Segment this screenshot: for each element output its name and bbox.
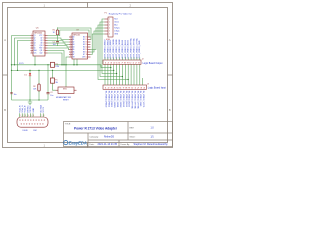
- svg-text:12: 12: [86, 52, 88, 54]
- svg-text:OUT_VIDEO_BLU1: OUT_VIDEO_BLU1: [125, 39, 127, 58]
- svg-text:15: 15: [86, 44, 88, 46]
- svg-text:HSYNC: HSYNC: [27, 105, 29, 113]
- svg-text:B: B: [4, 108, 6, 112]
- svg-text:RetherDS: RetherDS: [104, 136, 115, 139]
- svg-text:SW1: SW1: [63, 89, 67, 91]
- svg-text:Red: Red: [114, 19, 117, 21]
- svg-text:10u: 10u: [50, 95, 53, 97]
- diode D1: [24, 70, 31, 100]
- svg-text:11: 11: [43, 48, 45, 50]
- svg-text:Q8: Q8: [40, 40, 42, 42]
- svg-text:VGA_R: VGA_R: [18, 105, 21, 113]
- svg-text:12M: 12M: [55, 66, 59, 68]
- svg-text:IN_VIDEO_GRN2: IN_VIDEO_GRN2: [119, 91, 121, 108]
- svg-text:OUT_VIDEO_VSYNC: OUT_VIDEO_VSYNC: [133, 38, 135, 59]
- svg-text:74HC245: 74HC245: [73, 35, 81, 37]
- svg-text:GND: GND: [33, 107, 35, 112]
- svg-text:B7: B7: [83, 54, 85, 56]
- svg-text:14: 14: [43, 40, 45, 42]
- svg-text:OUT_VIDEO_RED2: OUT_VIDEO_RED2: [110, 39, 112, 59]
- svg-text:11: 11: [86, 54, 88, 56]
- wire U2 pin to switch SW1: [66, 57, 69, 87]
- svg-text:Q6: Q6: [34, 48, 36, 50]
- svg-text:A: A: [4, 38, 6, 42]
- svg-text:VCC5: VCC5: [43, 106, 45, 112]
- title block: [64, 122, 173, 147]
- svg-text:CLK: CLK: [34, 53, 37, 55]
- svg-text:Q7: Q7: [40, 38, 42, 40]
- wire U2 bottom pins to rail: [74, 59, 77, 65]
- svg-text:IN_VIDEO_RED2: IN_VIDEO_RED2: [110, 91, 112, 108]
- svg-text:Logic Board Output: Logic Board Output: [143, 62, 163, 65]
- wire bus between output and input headers: [105, 64, 143, 82]
- svg-text:RST: RST: [39, 48, 42, 50]
- capacitor C2: [47, 65, 54, 100]
- svg-text:10: 10: [86, 57, 88, 59]
- svg-text:B2: B2: [83, 42, 85, 44]
- ground: [28, 100, 32, 105]
- resistor R2: [33, 70, 40, 100]
- svg-text:18: 18: [86, 37, 88, 39]
- svg-text:14: 14: [86, 47, 88, 49]
- svg-text:Q10: Q10: [40, 45, 43, 47]
- svg-text:B3: B3: [83, 44, 85, 46]
- svg-text:OUT_VIDEO_GRN0: OUT_VIDEO_GRN0: [113, 39, 115, 59]
- svg-text:Blue: Blue: [114, 25, 117, 27]
- svg-text:B6: B6: [83, 52, 85, 54]
- svg-text:17: 17: [86, 39, 88, 41]
- wire bus U1 outputs to U2 inputs: [48, 38, 70, 50]
- svg-text:OUT_VIDEO_HSYNC: OUT_VIDEO_HSYNC: [131, 37, 133, 58]
- svg-text:12: 12: [43, 45, 45, 47]
- svg-text:TITLE:: TITLE:: [65, 123, 71, 125]
- svg-text:Drawn By:: Drawn By:: [121, 144, 131, 146]
- svg-text:OUT_VIDEO_GRN1: OUT_VIDEO_GRN1: [116, 39, 118, 59]
- svg-text:B4: B4: [83, 47, 85, 49]
- IC U2 74HC245: [69, 30, 91, 59]
- net labels J1: [18, 104, 45, 112]
- fuse F1: [51, 70, 59, 90]
- svg-text:A: A: [169, 38, 171, 42]
- svg-text:IN_VIDEO_GRN1: IN_VIDEO_GRN1: [116, 91, 118, 108]
- wire left spine: [11, 36, 13, 101]
- wire rail GND: [12, 69, 114, 71]
- svg-text:H-Sync: H-Sync: [114, 28, 120, 30]
- connector J3 logic board input header: [103, 82, 147, 90]
- resistor R1: [53, 28, 59, 41]
- svg-text:15: 15: [43, 38, 45, 40]
- svg-text:IN_VIDEO_VSYNC: IN_VIDEO_VSYNC: [133, 91, 135, 110]
- svg-text:J2: J2: [142, 59, 144, 61]
- svg-text:VSYNC: VSYNC: [30, 105, 32, 113]
- wire U1 left pins: [12, 36, 31, 71]
- svg-text:D1: D1: [24, 75, 26, 77]
- connector J2 logic board output header: [103, 57, 141, 64]
- svg-text:Company:: Company:: [90, 137, 100, 139]
- capacitor C1: [53, 40, 59, 46]
- svg-text:VGA_B: VGA_B: [24, 105, 27, 113]
- net labels output header: [105, 37, 142, 58]
- svg-text:ID_SDA: ID_SDA: [39, 104, 42, 112]
- svg-text:OUT_VIDEO_RED1: OUT_VIDEO_RED1: [107, 39, 109, 59]
- svg-text:Stephen M. Retenhoulstworthy: Stephen M. Retenhoulstworthy: [134, 143, 169, 146]
- svg-text:OUT_VIDEO_GRN2: OUT_VIDEO_GRN2: [119, 39, 121, 59]
- svg-text:10: 10: [43, 50, 45, 52]
- svg-text:Q12: Q12: [40, 53, 43, 55]
- svg-text:DSUB: DSUB: [23, 130, 29, 132]
- svg-text:Sheet:: Sheet:: [130, 136, 136, 139]
- svg-text:10u: 10u: [14, 94, 17, 96]
- svg-text:Q1: Q1: [34, 35, 36, 37]
- svg-text:IN_VIDEO_BLU2: IN_VIDEO_BLU2: [128, 91, 130, 108]
- svg-text:15M: 15M: [33, 130, 37, 132]
- svg-text:Q9: Q9: [40, 43, 42, 45]
- svg-text:OE: OE: [73, 57, 75, 59]
- svg-text:Green: Green: [114, 21, 119, 24]
- wire bottom rail: [12, 99, 49, 101]
- svg-text:Q11: Q11: [40, 50, 43, 52]
- svg-text:EasyEDA: EasyEDA: [69, 141, 87, 146]
- svg-text:Q3: Q3: [34, 40, 36, 42]
- svg-text:VGA_G: VGA_G: [21, 105, 24, 113]
- svg-text:IN_VIDEO_RED1: IN_VIDEO_RED1: [107, 91, 109, 108]
- svg-text:OUT_VIDEO_GND: OUT_VIDEO_GND: [139, 40, 141, 58]
- svg-text:IN_VIDEO_GND: IN_VIDEO_GND: [139, 91, 141, 107]
- svg-text:B0: B0: [83, 37, 85, 39]
- wire P1 pins routed to output header: [91, 19, 129, 80]
- svg-text:IN_VIDEO_BLU1: IN_VIDEO_BLU1: [125, 91, 127, 108]
- svg-text:1 2 3 4 5 6 7 8 9 0 1 2 3: 1 2 3 4 5 6 7 8 9 0 1 2 3: [105, 63, 140, 65]
- svg-text:OUT_VIDEO_CSYNC: OUT_VIDEO_CSYNC: [136, 37, 138, 58]
- svg-text:RESET: RESET: [63, 99, 69, 101]
- svg-text:MOMENTARY SW: MOMENTARY SW: [56, 96, 71, 99]
- svg-text:V-Sync: V-Sync: [114, 31, 120, 33]
- svg-text:16: 16: [43, 35, 45, 37]
- svg-text:OUT_VIDEO_RED0: OUT_VIDEO_RED0: [105, 39, 107, 59]
- svg-text:IN_VIDEO_VCC5: IN_VIDEO_VCC5: [142, 91, 144, 108]
- connector P1 Raspberry Pi video out: [105, 12, 133, 40]
- svg-text:OUT_VIDEO_BLU0: OUT_VIDEO_BLU0: [122, 39, 124, 58]
- svg-text:Date:: Date:: [90, 143, 95, 146]
- IC U1 74HC4040: [31, 28, 48, 56]
- wire rail VCC: [12, 65, 111, 68]
- svg-text:P1: P1: [105, 12, 107, 14]
- wire wrap-around from U1 over U2: [48, 28, 92, 40]
- svg-text:Power R 2713 Video Adapter: Power R 2713 Video Adapter: [74, 127, 118, 131]
- svg-text:Q5: Q5: [34, 45, 36, 47]
- svg-text:REV:: REV:: [130, 127, 135, 129]
- svg-text:IN_VIDEO_GRN0: IN_VIDEO_GRN0: [113, 91, 115, 108]
- EasyEDA logo: [64, 141, 87, 146]
- svg-text:B1: B1: [83, 39, 85, 41]
- svg-text:IN_VIDEO_BLU0: IN_VIDEO_BLU0: [122, 91, 124, 108]
- svg-text:Q2: Q2: [34, 38, 36, 40]
- connector J1 DB15 to monitor: [17, 113, 48, 127]
- wire U1 pin to lower rail: [35, 51, 64, 65]
- svg-text:13: 13: [43, 43, 45, 45]
- crystal Y1: [51, 62, 60, 68]
- svg-text:IN_VIDEO_HSYNC: IN_VIDEO_HSYNC: [131, 91, 133, 110]
- svg-text:Logic Board Input: Logic Board Input: [148, 87, 166, 90]
- svg-text:13: 13: [86, 49, 88, 51]
- capacitor C3: [10, 93, 16, 97]
- svg-text:16: 16: [86, 42, 88, 44]
- svg-text:J3: J3: [147, 83, 149, 85]
- svg-text:Q4: Q4: [34, 43, 36, 45]
- svg-text:IN_VIDEO_CSYNC: IN_VIDEO_CSYNC: [136, 91, 138, 110]
- junction dots: [11, 64, 129, 101]
- svg-text:Raspberry Pi's Video Out: Raspberry Pi's Video Out: [109, 13, 132, 16]
- net labels input header: [105, 91, 145, 110]
- svg-text:2021-11-14 21:35: 2021-11-14 21:35: [98, 143, 118, 146]
- svg-text:74HC4040: 74HC4040: [34, 33, 43, 35]
- switch SW1: [56, 87, 77, 101]
- svg-text:B: B: [169, 108, 171, 112]
- svg-text:IN_VIDEO_RED0: IN_VIDEO_RED0: [105, 91, 107, 108]
- svg-text:OUT_VIDEO_BLU2: OUT_VIDEO_BLU2: [128, 39, 130, 58]
- svg-text:1 2 3 4 5 6 7 8 9 0 1 2 3 4: 1 2 3 4 5 6 7 8 9 0 1 2 3 4: [105, 88, 146, 90]
- svg-text:B5: B5: [83, 49, 85, 51]
